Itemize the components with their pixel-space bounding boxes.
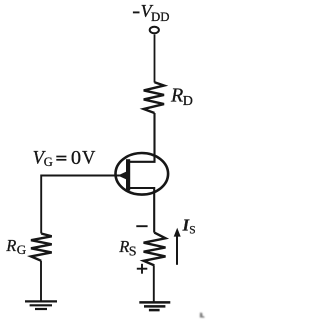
svg-text:S: S — [129, 244, 137, 259]
wire RD to drain — [130, 113, 155, 162]
wire gate to RG — [40, 175, 42, 234]
JFET source lead — [130, 188, 155, 233]
wire RS to ground — [153, 265, 155, 301]
svg-text:V: V — [82, 148, 96, 168]
svg-text:0: 0 — [71, 147, 81, 169]
label RG — [5, 236, 26, 257]
power terminal -VDD — [150, 27, 159, 33]
svg-text:S: S — [189, 225, 195, 237]
JFET gate arrow — [118, 171, 127, 180]
label RS — [118, 237, 136, 260]
ground left — [25, 301, 57, 309]
label -VDD — [133, 1, 170, 24]
wire RG to ground — [40, 261, 42, 301]
JFET Q1 body — [116, 153, 169, 195]
label IS — [182, 215, 196, 236]
svg-text:G: G — [44, 155, 53, 169]
resistor RD — [144, 82, 164, 113]
JFET channel bar — [126, 159, 130, 190]
svg-text:D: D — [183, 94, 193, 109]
svg-text:R: R — [170, 84, 183, 106]
resistor RS — [144, 233, 166, 266]
current arrow IS — [174, 228, 181, 265]
artifact smudge bottom right — [200, 313, 205, 318]
svg-text:G: G — [17, 242, 26, 257]
svg-text:R: R — [5, 236, 16, 255]
JFET gate lead — [42, 175, 127, 177]
label RD — [170, 84, 193, 109]
svg-text:DD: DD — [151, 10, 169, 24]
label plus below RS — [137, 264, 148, 274]
svg-text:R: R — [118, 237, 129, 256]
label VG = 0 V — [33, 147, 96, 169]
ground right — [139, 302, 170, 310]
label minus above RS — [136, 225, 147, 227]
resistor RG — [31, 234, 52, 261]
wire terminal to RD — [154, 34, 156, 82]
